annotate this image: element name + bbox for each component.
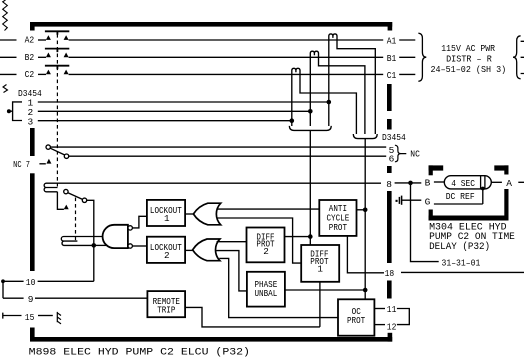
- wire OC PROT output to OR2 input: [219, 258, 338, 317]
- wire A2 from edge: [0, 39, 17, 41]
- terminal dot D3454 bracket: [7, 109, 11, 113]
- relay coil K1 upper: [44, 183, 381, 192]
- svg-text:1: 1: [164, 213, 170, 224]
- wire REMOTE TRIP output: [185, 307, 320, 327]
- cup gather CT left legs: [289, 126, 331, 130]
- svg-text:UNBAL: UNBAL: [255, 288, 278, 299]
- wire CT common B vertical down to OC PROT: [364, 139, 366, 300]
- wire ANTI CYCLE bottom to pin 18: [347, 236, 384, 273]
- svg-text:8: 8: [386, 179, 392, 190]
- box DIFF PROT 2: [247, 228, 285, 263]
- wire AND input from dot: [94, 244, 109, 246]
- M898 border top-right stub: [388, 22, 393, 31]
- switch S2 second contact circle: [82, 198, 86, 202]
- connector D3454 bracket: [9, 102, 22, 121]
- wire B2 from edge: [0, 56, 17, 58]
- wire pin 15 outside with terminal: [3, 313, 22, 319]
- junction dot pin3/CT-C: [290, 118, 295, 123]
- M898 border top-left stub: [30, 22, 35, 31]
- svg-text:11: 11: [387, 304, 397, 315]
- M898 border right bottom stub: [388, 333, 393, 342]
- wire pin8 node down to 31-31-01: [411, 183, 439, 262]
- M898 border right bar E: [387, 281, 392, 299]
- wire pin1 to CT A: [38, 101, 329, 103]
- svg-text:TRIP: TRIP: [157, 304, 176, 315]
- switch S2 blade: [68, 193, 83, 200]
- junction dot pill bottom: [481, 187, 485, 191]
- contact CB1 phase B bar: [45, 49, 69, 53]
- wire OC PROT to pin 11: [374, 308, 385, 310]
- svg-text:2: 2: [263, 246, 269, 257]
- U1 output bubble top: [128, 226, 132, 230]
- G terminal dot: [396, 200, 398, 202]
- wire CT common A down to DIFF PROT 1: [309, 130, 311, 245]
- G terminal symbol: [399, 196, 401, 205]
- wire pin 10 inside: [38, 280, 94, 282]
- svg-text:4 SEC: 4 SEC: [451, 178, 475, 189]
- wire pin 9 to REMOTE TRIP: [35, 297, 147, 299]
- sheet-break zigzag top-left: [3, 0, 8, 31]
- svg-text:PROT: PROT: [347, 315, 366, 326]
- jumper 10 to 9 outside: [2, 281, 4, 298]
- svg-text:18: 18: [385, 268, 395, 279]
- switch S2 common contact circle: [64, 189, 68, 193]
- M898 border right bar B: [387, 119, 392, 130]
- or-gate U2 (mirrored): [193, 203, 220, 225]
- current transformer CT-A: [329, 34, 376, 134]
- contact arrow A right: [64, 35, 69, 40]
- M898 border right bar A: [387, 84, 392, 111]
- svg-text:2: 2: [164, 250, 170, 261]
- svg-text:DC REF: DC REF: [446, 191, 475, 202]
- svg-text:12: 12: [387, 321, 397, 332]
- stubs right continuation: [521, 41, 524, 73]
- box REMOTE TRIP: [147, 291, 185, 317]
- or-gate U3 (mirrored): [193, 239, 220, 261]
- svg-text:A: A: [506, 178, 512, 189]
- contact arrow C left: [46, 70, 51, 75]
- mechanical linkage dashed line: [56, 34, 58, 187]
- box ANTI CYCLE PROT: [319, 200, 356, 236]
- wire DIFF PROT 1 output to OR1 input: [217, 218, 301, 263]
- contact arrow B left: [46, 53, 51, 58]
- junction dot pin 8 node: [408, 181, 413, 186]
- box DIFF PROT 1: [301, 245, 339, 282]
- M898 border top bar: [30, 22, 392, 27]
- wire PHASE UNBAL right to junction: [285, 289, 365, 291]
- svg-text:B1: B1: [387, 53, 397, 64]
- wire U1 top bubble to LOCKOUT 1: [132, 216, 147, 228]
- junction dot pins 9-10 jumper: [1, 279, 5, 283]
- wire DIFF PROT 2 to CT common junction: [285, 236, 311, 238]
- M898 border left bar 2: [30, 173, 35, 271]
- contact CB1 phase A line to A1: [69, 39, 384, 41]
- switch S1 blade: [50, 148, 64, 155]
- svg-text:31–31–01: 31–31–01: [442, 257, 481, 268]
- contact arrow C right: [64, 70, 69, 75]
- box LOCKOUT 2: [147, 237, 185, 263]
- wire pin 7 stub: [39, 163, 45, 165]
- brace pins 5-6 NC: [395, 145, 406, 162]
- wire pin3 to CT C: [38, 120, 292, 122]
- wire pin 9 outside: [3, 297, 24, 299]
- svg-text:G: G: [425, 196, 431, 207]
- M304 box bottom bar: [429, 216, 509, 221]
- wire G outside: [401, 199, 421, 201]
- chassis ground pin 15: [57, 312, 61, 324]
- wire PHASE UNBAL output to OR2 input: [216, 251, 247, 291]
- M898 border bottom bar: [30, 337, 392, 342]
- mechanical linkage dashed S2 to coil K2: [75, 198, 77, 242]
- sheet-break zigzag small: [3, 85, 8, 93]
- wire LOCKOUT2 to OR2: [185, 249, 193, 251]
- wire ANTI CYCLE output to OR1 input: [217, 208, 319, 210]
- wire pin2 to CT B: [38, 110, 311, 112]
- wire B1 outside: [399, 56, 415, 58]
- U1 output bubble bottom: [128, 244, 132, 248]
- arrow coil K1 to switch S2: [64, 205, 69, 210]
- svg-text:D3454: D3454: [382, 132, 406, 143]
- junction dot pin2/CT-B: [308, 109, 313, 114]
- M304 box top-left corner: [429, 165, 444, 170]
- contact CB1 phase B line to B1: [69, 56, 384, 58]
- M304 box top-right corner: [494, 165, 508, 170]
- svg-text:DELAY (P32): DELAY (P32): [429, 241, 490, 253]
- svg-text:10: 10: [26, 277, 36, 288]
- wire C2 from edge: [0, 73, 17, 75]
- pill internal bars: [481, 176, 485, 189]
- contact CB1 phase B stub: [38, 56, 46, 58]
- M304 box right bar: [504, 189, 508, 216]
- timer pill 4 SEC: [444, 176, 491, 189]
- cup gather CT right legs: [353, 134, 377, 139]
- svg-text:A2: A2: [25, 35, 35, 46]
- svg-text:24–51–02 (SH 3): 24–51–02 (SH 3): [431, 64, 507, 75]
- wire pin 18 outside to edge: [401, 271, 524, 273]
- wire DIFF PROT 1 bottom down: [319, 282, 321, 327]
- relay coil K2 lower: [61, 237, 105, 246]
- svg-text:NC: NC: [410, 149, 420, 160]
- wire C1 outside: [399, 73, 415, 75]
- contact arrow A left: [46, 35, 51, 40]
- M898 border left bar 1: [30, 128, 35, 156]
- brace right continuation: [513, 36, 521, 79]
- junction dot AND input: [92, 243, 97, 248]
- contact CB1 phase C line to C1: [69, 73, 384, 75]
- and-gate U1 (mirrored D-shape): [103, 225, 128, 248]
- current transformer CT-B: [310, 51, 365, 134]
- contact CB1 phase A bar: [45, 31, 69, 35]
- junction dot DIFF2/CT common: [308, 234, 313, 239]
- wire switch to pin 5: [51, 146, 387, 148]
- wire LOCKOUT1 to OR1: [185, 213, 194, 215]
- current transformer CT-C: [292, 68, 357, 134]
- svg-text:PROT: PROT: [329, 222, 348, 233]
- box PHASE UNBAL: [247, 272, 285, 307]
- wire pin 10 outside: [3, 280, 24, 282]
- pin 7 arrow: [46, 159, 51, 164]
- svg-text:15: 15: [25, 312, 35, 323]
- switch S1 second contact circle: [64, 154, 68, 158]
- wire pin 15 to ground: [38, 315, 53, 317]
- wire DC REF underline to pill: [434, 189, 483, 205]
- junction dot pin1/CT-A: [327, 100, 332, 105]
- switch S1 common contact circle: [46, 145, 50, 149]
- wire pin 8 to B: [434, 181, 445, 183]
- junction dot PHASE/V365: [363, 288, 368, 293]
- contact arrow B right: [64, 53, 69, 58]
- wire ANTI CYCLE to V365: [357, 209, 366, 211]
- wire DIFF PROT 2 output to OR2 input: [217, 241, 247, 243]
- contact CB1 phase C stub: [38, 73, 46, 75]
- wire coil K1 to arrow: [57, 192, 64, 210]
- wire switch to pin 6: [69, 155, 386, 157]
- svg-text:NC 7: NC 7: [13, 159, 30, 170]
- svg-text:B2: B2: [25, 52, 35, 63]
- M898 border right bar C: [387, 166, 392, 173]
- box LOCKOUT 1: [147, 200, 185, 226]
- svg-text:9: 9: [28, 294, 34, 305]
- svg-text:3: 3: [28, 116, 34, 127]
- M898 border left bottom stub: [30, 328, 35, 342]
- wire OC PROT to pin 12: [374, 324, 385, 326]
- wire A1 outside: [399, 39, 415, 41]
- brace 115V group: [418, 33, 426, 81]
- wire coil line to pin 8 gap handled above: [395, 182, 422, 184]
- svg-text:6: 6: [389, 154, 395, 165]
- wire pill to A: [491, 181, 502, 183]
- svg-text:M898 ELEC HYD PUMP C2 ELCU (P: M898 ELEC HYD PUMP C2 ELCU (P32): [29, 347, 250, 359]
- svg-text:A1: A1: [387, 35, 397, 46]
- svg-text:C2: C2: [25, 69, 35, 80]
- contact CB1 phase A stub: [38, 39, 46, 41]
- svg-text:C1: C1: [387, 70, 397, 81]
- svg-text:1: 1: [317, 263, 323, 274]
- wire U1 bottom bubble to LOCKOUT 2: [132, 245, 147, 247]
- box OC PROT: [338, 299, 374, 335]
- junction dot ANTI/V365: [363, 208, 368, 213]
- contact CB1 phase C bar: [45, 66, 69, 70]
- wire A to edge: [518, 181, 524, 183]
- wire S2 down to pin 10: [87, 200, 94, 281]
- svg-text:115V AC PWR: 115V AC PWR: [441, 43, 495, 54]
- bracket pins 11-12: [397, 309, 409, 325]
- M898 border right bar D: [387, 191, 392, 263]
- svg-text:B: B: [425, 177, 431, 188]
